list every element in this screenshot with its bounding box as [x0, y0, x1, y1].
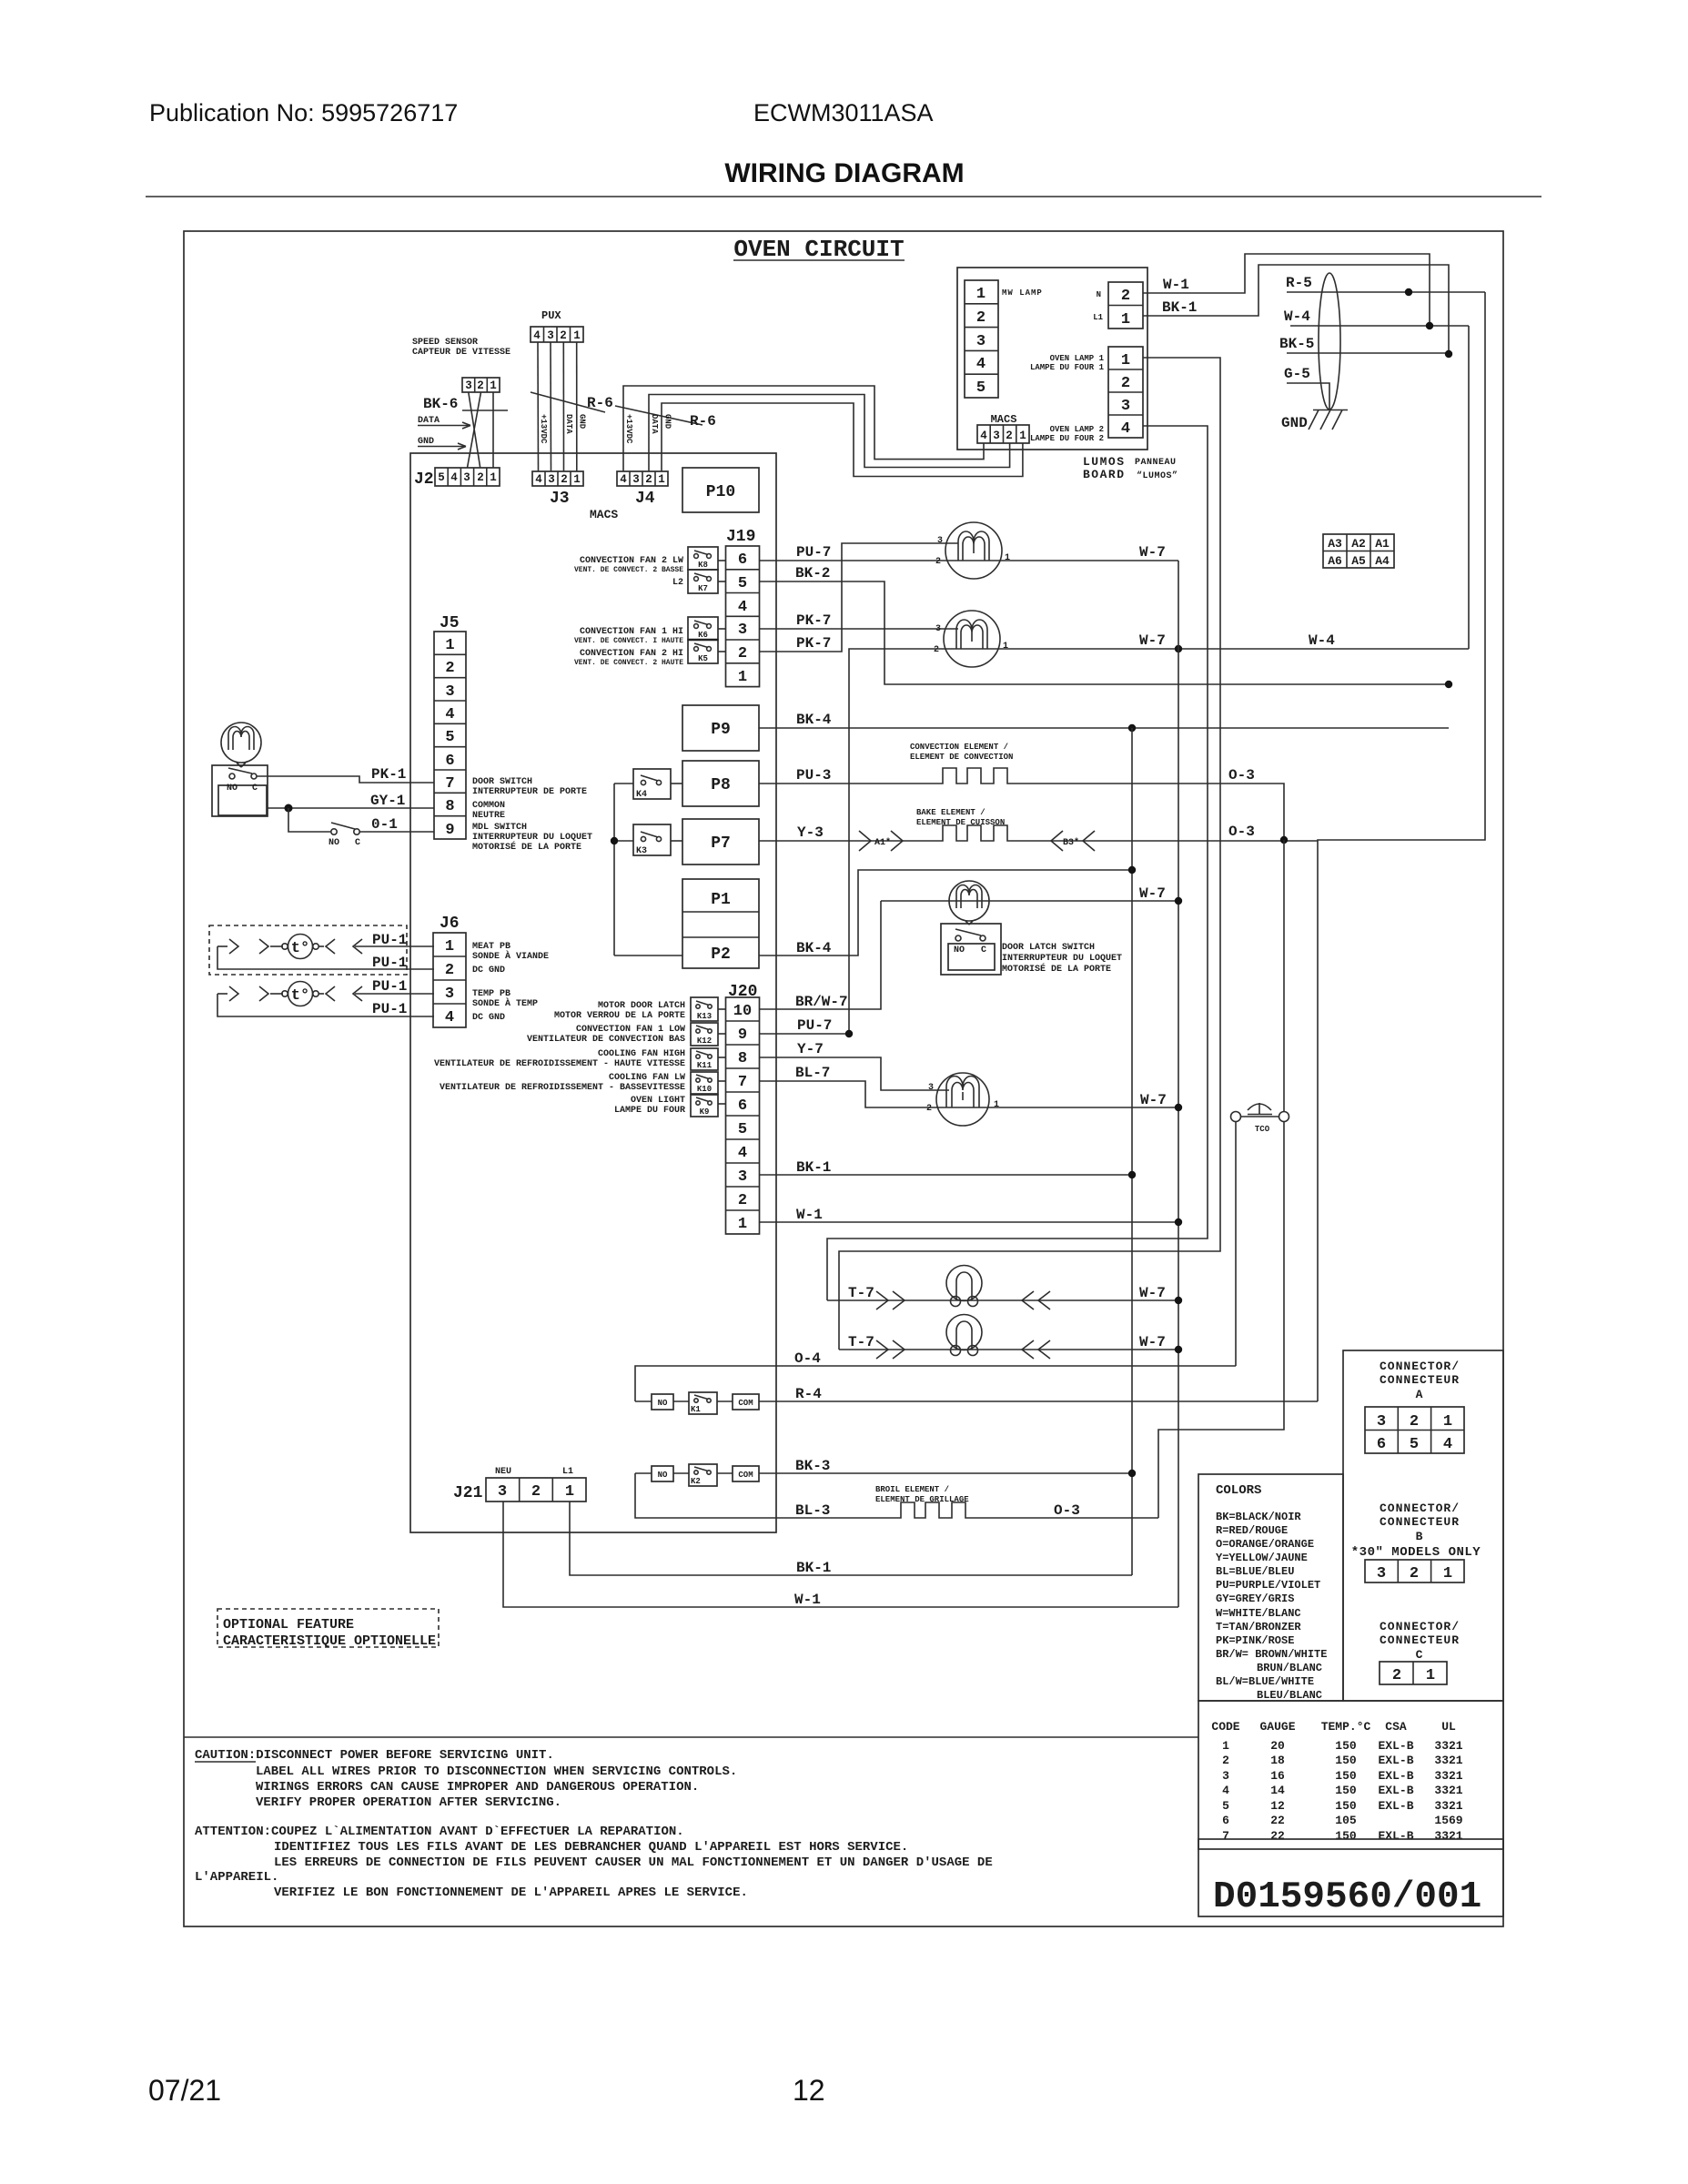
svg-text:L'APPAREIL.: L'APPAREIL. [195, 1870, 278, 1885]
wire Y-3 from P7 to bake element [759, 824, 942, 841]
svg-text:NEUTRE: NEUTRE [472, 811, 505, 821]
svg-text:GY-1: GY-1 [370, 793, 405, 809]
svg-text:BOARD: BOARD [1083, 468, 1126, 481]
svg-text:4: 4 [450, 471, 458, 484]
svg-text:2: 2 [935, 557, 941, 567]
junction W bus / W-7 M4 [1175, 1104, 1182, 1111]
wire Y-7 from J20-8 to motor M4 pin3 [760, 1041, 950, 1090]
svg-text:MOTOR DOOR LATCH: MOTOR DOOR LATCH [598, 1001, 685, 1011]
relay K12 [691, 1023, 726, 1046]
svg-text:9: 9 [445, 822, 454, 839]
svg-text:150: 150 [1335, 1784, 1357, 1797]
svg-text:CAUTION:DISCONNECT POWER BEFOR: CAUTION:DISCONNECT POWER BEFORE SERVICIN… [195, 1748, 554, 1763]
svg-text:VERIFY PROPER OPERATION AFTER: VERIFY PROPER OPERATION AFTER SERVICING. [256, 1795, 561, 1810]
svg-text:BLEU/BLANC: BLEU/BLANC [1257, 1689, 1322, 1702]
junction BK-2/BK-5 bus [1445, 681, 1452, 688]
connector speed sensor (3-1) [462, 378, 500, 392]
svg-text:3: 3 [738, 1168, 747, 1186]
svg-text:2: 2 [934, 645, 939, 655]
wire sensor pin2 to J2 pin3 (crossing) [468, 392, 481, 468]
heating element convection [942, 768, 1008, 784]
svg-text:OVEN LAMP 1: OVEN LAMP 1 [1050, 354, 1105, 363]
heater element T-7 lower [839, 1315, 1178, 1360]
wire BK-2 from J19-5 to BK bus right [760, 565, 1450, 684]
wire BK-1 from J21-1 to BK bus [570, 1501, 1132, 1576]
switch MDL (NO C) [288, 808, 434, 848]
junction W bus / T-7 lower [1175, 1346, 1182, 1353]
svg-text:BK-4: BK-4 [796, 940, 832, 956]
svg-text:3: 3 [976, 333, 986, 350]
MACS control board outline [410, 453, 776, 1532]
svg-text:2: 2 [1121, 375, 1130, 392]
svg-text:Publication No: 5995726717: Publication No: 5995726717 [149, 99, 458, 126]
wire BK-5 harness lead [1279, 336, 1449, 353]
svg-text:1: 1 [1443, 1413, 1452, 1431]
svg-text:4: 4 [533, 329, 541, 342]
wire W-4 harness lead [1284, 308, 1469, 326]
svg-text:3: 3 [548, 473, 555, 486]
svg-text:CARACTERISTIQUE OPTIONELLE: CARACTERISTIQUE OPTIONELLE [223, 1633, 436, 1649]
dashed box optional meat probe [209, 925, 407, 975]
svg-text:P7: P7 [711, 834, 731, 853]
svg-text:OVEN CIRCUIT: OVEN CIRCUIT [733, 236, 904, 263]
wire BK-1 from LUMOS pin L1 to BK-5 bus [1143, 265, 1449, 354]
svg-text:A2: A2 [1351, 537, 1366, 551]
junction BK bus / BK-4 P2 [1128, 866, 1136, 874]
wire PK-7 from J19-2 to motor M1 pin3 [760, 543, 959, 652]
junction W bus / W-1 [1175, 1218, 1182, 1226]
svg-text:4: 4 [445, 1009, 454, 1026]
svg-text:OPTIONAL FEATURE: OPTIONAL FEATURE [223, 1617, 354, 1633]
svg-text:CONNECTOR/: CONNECTOR/ [1380, 1501, 1460, 1515]
svg-text:BK-1: BK-1 [796, 1159, 831, 1176]
svg-text:3: 3 [935, 624, 941, 634]
svg-text:t°: t° [291, 940, 309, 957]
svg-text:T-7: T-7 [848, 1334, 874, 1350]
svg-text:W-1: W-1 [1163, 277, 1189, 293]
svg-text:UL: UL [1441, 1720, 1456, 1734]
wire PU-3 from P8 to convection element [759, 767, 942, 784]
svg-text:4: 4 [738, 1145, 747, 1162]
svg-text:ATTENTION:COUPEZ L`ALIMENTATIO: ATTENTION:COUPEZ L`ALIMENTATION AVANT D`… [195, 1825, 684, 1839]
wire W-7 from motor M4 to W bus [936, 1092, 1178, 1108]
svg-text:PU-3: PU-3 [796, 767, 831, 784]
connector A pins [1365, 1407, 1464, 1453]
svg-text:BK-5: BK-5 [1279, 336, 1314, 352]
svg-text:5: 5 [445, 729, 454, 746]
svg-text:CONVECTION FAN 1 LOW: CONVECTION FAN 1 LOW [576, 1025, 685, 1035]
connector P7 [682, 819, 759, 864]
svg-text:LES ERREURS DE CONNECTION DE F: LES ERREURS DE CONNECTION DE FILS PEUVEN… [274, 1855, 993, 1870]
svg-text:1569: 1569 [1434, 1814, 1462, 1827]
svg-text:W-7: W-7 [1139, 544, 1166, 561]
relay K11 [691, 1048, 726, 1070]
svg-text:1: 1 [573, 329, 581, 342]
svg-text:3: 3 [498, 1483, 507, 1501]
svg-text:6: 6 [738, 1097, 747, 1115]
svg-text:J19: J19 [726, 528, 755, 546]
svg-text:ELEMENT DE CONVECTION: ELEMENT DE CONVECTION [910, 753, 1013, 762]
svg-text:A1*: A1* [874, 837, 891, 848]
svg-text:1: 1 [738, 1216, 747, 1233]
svg-text:2: 2 [1392, 1667, 1401, 1684]
wire PUX pin2 to J3 pin2 [562, 342, 564, 471]
svg-text:CODE: CODE [1211, 1720, 1239, 1734]
svg-text:ECWM3011ASA: ECWM3011ASA [753, 99, 934, 126]
svg-text:BR/W= BROWN/WHITE: BR/W= BROWN/WHITE [1216, 1648, 1327, 1661]
junction BK bus / BK-1 [1128, 1171, 1136, 1178]
svg-text:J3: J3 [550, 490, 570, 508]
svg-text:1: 1 [1443, 1565, 1452, 1582]
svg-text:PU=PURPLE/VIOLET: PU=PURPLE/VIOLET [1216, 1579, 1320, 1592]
relay K8 [688, 547, 726, 570]
svg-text:O-3: O-3 [1228, 824, 1255, 840]
svg-text:ELEMENT DE CUISSON: ELEMENT DE CUISSON [916, 818, 1005, 827]
relay K7 [688, 570, 726, 593]
svg-text:PU-1: PU-1 [372, 932, 407, 948]
svg-text:R-4: R-4 [795, 1386, 822, 1402]
svg-text:22: 22 [1270, 1829, 1285, 1843]
svg-text:GND: GND [1281, 415, 1308, 431]
relay K13 [691, 997, 726, 1021]
svg-text:BK-1: BK-1 [1162, 299, 1197, 316]
wire PU-7 / W-7 from J19-6 through motor M1 to W bus [760, 544, 1179, 561]
svg-text:N: N [1097, 290, 1101, 299]
wire GY-1 from door switch to J5-8 [268, 793, 434, 809]
LUMOS board outline [957, 268, 1147, 450]
svg-text:4: 4 [1121, 420, 1130, 438]
svg-text:1: 1 [1003, 642, 1008, 652]
wire BK-1 from J20-3 to BK bus [760, 1159, 1133, 1176]
svg-text:R=RED/ROUGE: R=RED/ROUGE [1216, 1524, 1288, 1537]
wire O-3 from broil element to TCO lead [966, 1502, 1158, 1519]
net tick BK-6 [462, 409, 508, 411]
svg-text:WIRING DIAGRAM: WIRING DIAGRAM [724, 158, 964, 188]
svg-text:NO: NO [227, 784, 238, 794]
svg-text:GND: GND [418, 437, 434, 447]
svg-text:22: 22 [1270, 1814, 1285, 1827]
svg-text:2: 2 [561, 473, 568, 486]
svg-text:B: B [1416, 1530, 1424, 1543]
svg-text:W-1: W-1 [794, 1592, 821, 1608]
svg-text:LAMPE DU FOUR 1: LAMPE DU FOUR 1 [1030, 363, 1105, 372]
svg-text:A: A [1416, 1388, 1424, 1401]
svg-text:W-7: W-7 [1140, 1092, 1167, 1108]
svg-text:R-6: R-6 [690, 413, 716, 430]
svg-text:VENTILATEUR DE CONVECTION BAS: VENTILATEUR DE CONVECTION BAS [527, 1035, 685, 1045]
svg-text:3321: 3321 [1434, 1754, 1462, 1767]
svg-text:4: 4 [1222, 1784, 1229, 1797]
svg-text:LABEL ALL WIRES PRIOR TO DISCO: LABEL ALL WIRES PRIOR TO DISCONNECTION W… [256, 1764, 737, 1779]
svg-text:NO: NO [658, 1471, 668, 1480]
wire PK-7 from J19-3 to motor M2 pin3 [760, 612, 959, 629]
svg-text:MACS: MACS [991, 413, 1017, 426]
svg-text:B3*: B3* [1063, 837, 1079, 848]
svg-text:NEU: NEU [495, 1467, 511, 1477]
svg-text:3: 3 [937, 536, 943, 546]
wire O-3 from bake element to junction [1008, 824, 1318, 841]
svg-text:150: 150 [1335, 1769, 1357, 1783]
svg-text:3: 3 [1222, 1769, 1229, 1783]
svg-text:MW LAMP: MW LAMP [1002, 288, 1043, 298]
svg-text:J21: J21 [453, 1484, 483, 1502]
svg-text:EXL-B: EXL-B [1378, 1769, 1413, 1783]
junction W bus / W-7 motor M2 [1175, 645, 1182, 652]
svg-text:J5: J5 [440, 614, 460, 632]
svg-text:DATA: DATA [650, 414, 659, 434]
svg-text:MDL SWITCH: MDL SWITCH [472, 823, 527, 833]
wire BL-7 from J20-7 to motor M4 [760, 1065, 937, 1107]
svg-text:A1: A1 [1375, 537, 1390, 551]
svg-text:W-7: W-7 [1139, 1285, 1166, 1301]
connector legend box [1343, 1350, 1503, 1701]
arrow DATA [418, 422, 470, 429]
svg-text:MOTOR VERROU DE LA PORTE: MOTOR VERROU DE LA PORTE [554, 1011, 685, 1021]
wire BL-3 from K2 NO to broil element [635, 1473, 900, 1519]
svg-text:COOLING FAN LW: COOLING FAN LW [609, 1073, 685, 1083]
svg-text:PU-1: PU-1 [372, 955, 407, 971]
svg-text:1: 1 [565, 1483, 574, 1501]
svg-text:J6: J6 [440, 915, 460, 933]
svg-text:BL/W=BLUE/WHITE: BL/W=BLUE/WHITE [1216, 1675, 1314, 1688]
svg-text:7: 7 [445, 775, 454, 793]
svg-text:LUMOS: LUMOS [1083, 455, 1126, 469]
svg-text:2: 2 [531, 1483, 541, 1501]
wire O-3 from convection element to O-3 bus [1008, 767, 1284, 840]
svg-text:BK-2: BK-2 [795, 565, 830, 581]
svg-text:CONNECTEUR: CONNECTEUR [1380, 1633, 1460, 1647]
svg-text:3: 3 [445, 986, 454, 1003]
svg-text:W-4: W-4 [1309, 632, 1335, 649]
label connector B [1351, 1501, 1481, 1560]
svg-text:COMMON: COMMON [472, 801, 505, 811]
svg-text:1: 1 [976, 286, 986, 303]
svg-text:PK-7: PK-7 [796, 612, 831, 629]
svg-text:J20: J20 [728, 983, 757, 1001]
wire R bus R-5 to R-4 [1318, 292, 1485, 1401]
svg-text:W-1: W-1 [796, 1207, 823, 1223]
motor M1 convection fan [935, 522, 1010, 579]
connector J5 (1-9) [434, 632, 466, 839]
svg-text:Y=YELLOW/JAUNE: Y=YELLOW/JAUNE [1216, 1552, 1308, 1564]
wire BR/W-7 from J20-10 to motor M3 [760, 901, 882, 1010]
svg-text:EXL-B: EXL-B [1378, 1739, 1413, 1753]
svg-text:C: C [355, 838, 360, 848]
svg-text:CONVECTION FAN 2 HI: CONVECTION FAN 2 HI [580, 649, 683, 659]
svg-text:TEMP PB: TEMP PB [472, 989, 510, 999]
connector OVEN LAMP (LUMOS pins 1-4) [1108, 347, 1143, 438]
svg-text:3: 3 [1377, 1413, 1386, 1431]
connector P9 [682, 705, 759, 751]
svg-text:NO: NO [329, 838, 339, 848]
svg-text:J4: J4 [635, 490, 655, 508]
svg-text:K12: K12 [697, 1036, 712, 1046]
svg-text:1: 1 [490, 379, 497, 392]
svg-text:150: 150 [1335, 1829, 1357, 1843]
svg-text:5: 5 [738, 575, 747, 592]
svg-text:3321: 3321 [1434, 1799, 1462, 1813]
svg-text:EXL-B: EXL-B [1378, 1754, 1413, 1767]
svg-text:O=ORANGE/ORANGE: O=ORANGE/ORANGE [1216, 1538, 1314, 1551]
svg-text:2: 2 [1121, 288, 1130, 305]
wire TCO bus down [1283, 840, 1285, 1111]
svg-text:Y-7: Y-7 [797, 1041, 824, 1057]
svg-text:1: 1 [445, 938, 454, 955]
svg-text:D0159560/001: D0159560/001 [1213, 1876, 1481, 1918]
connector J21 (3,2,1) [486, 1478, 586, 1501]
junction BK-1/BK-5 [1445, 350, 1452, 358]
svg-text:INTERRUPTEUR DU LOQUET: INTERRUPTEUR DU LOQUET [472, 833, 592, 843]
svg-text:K8: K8 [698, 561, 708, 570]
wire oven lamp pin4 to T-7 outer loop [827, 426, 1208, 1300]
svg-text:1: 1 [1019, 430, 1026, 442]
relay K4 [614, 769, 682, 800]
svg-text:3: 3 [463, 471, 470, 484]
svg-text:C: C [981, 945, 986, 955]
svg-text:VENTILATEUR DE REFROIDISSEMENT: VENTILATEUR DE REFROIDISSEMENT - BASSEVI… [440, 1083, 685, 1093]
wire BK-4 from P9 to BK-5 bus [759, 712, 1449, 728]
svg-text:TEMP.°C: TEMP.°C [1321, 1720, 1371, 1734]
svg-text:CONVECTION FAN 2 LW: CONVECTION FAN 2 LW [580, 556, 683, 566]
svg-text:DATA: DATA [418, 416, 440, 426]
label connector A [1380, 1360, 1460, 1401]
svg-text:12: 12 [1270, 1799, 1285, 1813]
svg-text:COLORS: COLORS [1216, 1483, 1261, 1498]
wire TCO right lead down to broil O-3 [1158, 1122, 1284, 1518]
svg-text:L1: L1 [1093, 313, 1103, 322]
svg-text:2: 2 [976, 309, 986, 327]
svg-text:2: 2 [560, 329, 567, 342]
svg-text:2: 2 [645, 473, 652, 486]
junction W bus / T-7 upper [1175, 1297, 1182, 1304]
svg-text:16: 16 [1270, 1769, 1285, 1783]
svg-text:NO: NO [658, 1399, 668, 1408]
svg-text:10: 10 [733, 1003, 752, 1020]
svg-text:L2: L2 [672, 578, 683, 588]
wire PU-7 from J20-9 to motor M2 bus [760, 1017, 850, 1034]
connector MW LAMP (LUMOS pins 1-5) [965, 280, 998, 398]
svg-text:BL-3: BL-3 [795, 1502, 830, 1519]
wire MACS pin4 to J4 pin4 [623, 386, 984, 471]
svg-text:K3: K3 [636, 846, 647, 856]
relay K2 with NO/COM [635, 1464, 759, 1486]
svg-text:18: 18 [1270, 1754, 1285, 1767]
svg-text:20: 20 [1270, 1739, 1285, 1753]
optional feature dashed box [217, 1609, 439, 1649]
svg-text:1: 1 [490, 471, 497, 484]
svg-text:3: 3 [738, 622, 747, 639]
svg-text:G-5: G-5 [1284, 366, 1310, 382]
svg-text:BRUN/BLANC: BRUN/BLANC [1257, 1662, 1322, 1674]
svg-text:4: 4 [620, 473, 627, 486]
svg-text:9: 9 [738, 1026, 747, 1044]
svg-text:SPEED SENSOR: SPEED SENSOR [412, 338, 478, 348]
svg-text:CONNECTEUR: CONNECTEUR [1380, 1515, 1460, 1529]
wire W bus vertical [1178, 561, 1179, 1607]
svg-text:A6: A6 [1328, 554, 1342, 568]
svg-text:PU-7: PU-7 [797, 1017, 832, 1034]
svg-text:COOLING FAN HIGH: COOLING FAN HIGH [598, 1049, 685, 1059]
svg-text:R-5: R-5 [1286, 275, 1312, 291]
wire BK-3 from K2 COM to BK bus [759, 1458, 1132, 1474]
svg-text:2: 2 [738, 645, 747, 662]
svg-text:150: 150 [1335, 1799, 1357, 1813]
svg-text:VERIFIEZ LE BON FONCTIONNEMENT: VERIFIEZ LE BON FONCTIONNEMENT DE L'APPA… [274, 1886, 748, 1900]
svg-text:5: 5 [1222, 1799, 1229, 1813]
junction W-1/W-4 [1426, 322, 1433, 329]
label connector C [1380, 1620, 1460, 1662]
svg-text:DOOR LATCH SWITCH: DOOR LATCH SWITCH [1002, 943, 1095, 953]
svg-text:3: 3 [445, 683, 454, 701]
svg-text:2: 2 [445, 660, 454, 677]
svg-text:BK-6: BK-6 [423, 396, 458, 412]
svg-text:A5: A5 [1351, 554, 1366, 568]
svg-text:BL-7: BL-7 [795, 1065, 830, 1081]
connector J2 (5-1) [435, 468, 500, 486]
wire W-1 from J20-1 to W bus [760, 1207, 1179, 1223]
svg-text:PANNEAU: PANNEAU [1135, 458, 1177, 468]
svg-text:GY=GREY/GRIS: GY=GREY/GRIS [1216, 1592, 1294, 1605]
svg-text:PK-7: PK-7 [796, 635, 831, 652]
svg-text:PU-7: PU-7 [796, 544, 831, 561]
svg-text:3: 3 [465, 379, 472, 392]
wire PUX pin3 to J3 pin3 [550, 342, 552, 471]
connector C pins [1380, 1662, 1447, 1684]
motor door motor (left) [221, 723, 261, 767]
svg-text:5: 5 [976, 379, 986, 397]
svg-text:2: 2 [1222, 1754, 1229, 1767]
cable sheath ellipse [1319, 273, 1340, 409]
terminal arrows A1* [859, 831, 903, 851]
svg-text:2: 2 [926, 1104, 932, 1114]
wire sensor pin1 to J2 pin1 [492, 392, 494, 468]
svg-text:P9: P9 [711, 721, 731, 739]
svg-text:1: 1 [1426, 1667, 1435, 1684]
junction O-3 bake/TCO bus [1280, 836, 1288, 844]
svg-text:4: 4 [980, 430, 987, 442]
svg-text:C: C [252, 784, 258, 794]
wire G-5 harness lead [1284, 366, 1329, 409]
svg-text:P10: P10 [706, 483, 735, 501]
svg-text:3: 3 [1377, 1565, 1386, 1582]
relay K3 [614, 824, 682, 856]
wire MACS pin1 to J4 pin1 [662, 403, 1023, 477]
svg-text:5: 5 [1410, 1436, 1419, 1453]
svg-text:5: 5 [438, 471, 445, 484]
svg-text:105: 105 [1335, 1814, 1357, 1827]
junction on R-5 [1405, 288, 1412, 296]
svg-text:P2: P2 [711, 945, 731, 964]
svg-text:3321: 3321 [1434, 1739, 1462, 1753]
svg-text:SONDE À VIANDE: SONDE À VIANDE [472, 949, 549, 962]
svg-text:W-7: W-7 [1139, 632, 1166, 649]
wire TCO left lead down to O-4 [1235, 1122, 1237, 1366]
svg-text:R-6: R-6 [587, 395, 613, 411]
svg-text:K6: K6 [698, 631, 708, 640]
svg-text:1: 1 [738, 669, 747, 686]
svg-text:“LUMOS”: “LUMOS” [1137, 470, 1178, 481]
svg-text:C: C [1416, 1648, 1424, 1662]
svg-text:MOTORISÉ DE LA PORTE: MOTORISÉ DE LA PORTE [1002, 962, 1111, 975]
wire W-1 from LUMOS pin N to W-4 junction [1143, 254, 1430, 326]
connector N/L1 (LUMOS pins 2,1) [1108, 282, 1143, 329]
svg-text:K4: K4 [636, 790, 647, 800]
svg-text:BK=BLACK/NOIR: BK=BLACK/NOIR [1216, 1511, 1301, 1523]
junction PU-7 [845, 1030, 853, 1037]
heating element bake [942, 825, 1008, 841]
svg-text:3: 3 [547, 329, 554, 342]
svg-text:6: 6 [1222, 1814, 1229, 1827]
